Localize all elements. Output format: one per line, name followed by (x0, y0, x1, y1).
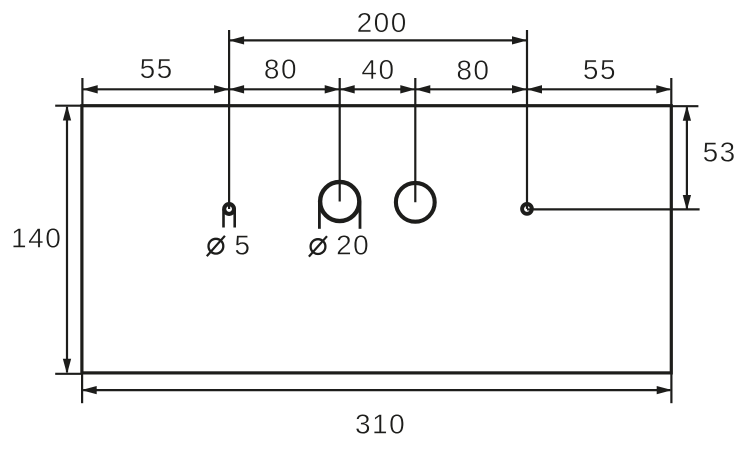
svg-text:80: 80 (456, 54, 490, 85)
svg-text:40: 40 (361, 54, 395, 85)
svg-text:5: 5 (234, 230, 251, 261)
svg-text:80: 80 (264, 54, 298, 85)
svg-text:55: 55 (140, 53, 174, 84)
svg-text:53: 53 (703, 136, 737, 167)
svg-text:55: 55 (583, 54, 617, 85)
svg-text:140: 140 (11, 223, 62, 254)
svg-text:200: 200 (357, 7, 408, 38)
svg-text:20: 20 (336, 230, 370, 261)
svg-text:310: 310 (355, 409, 406, 440)
